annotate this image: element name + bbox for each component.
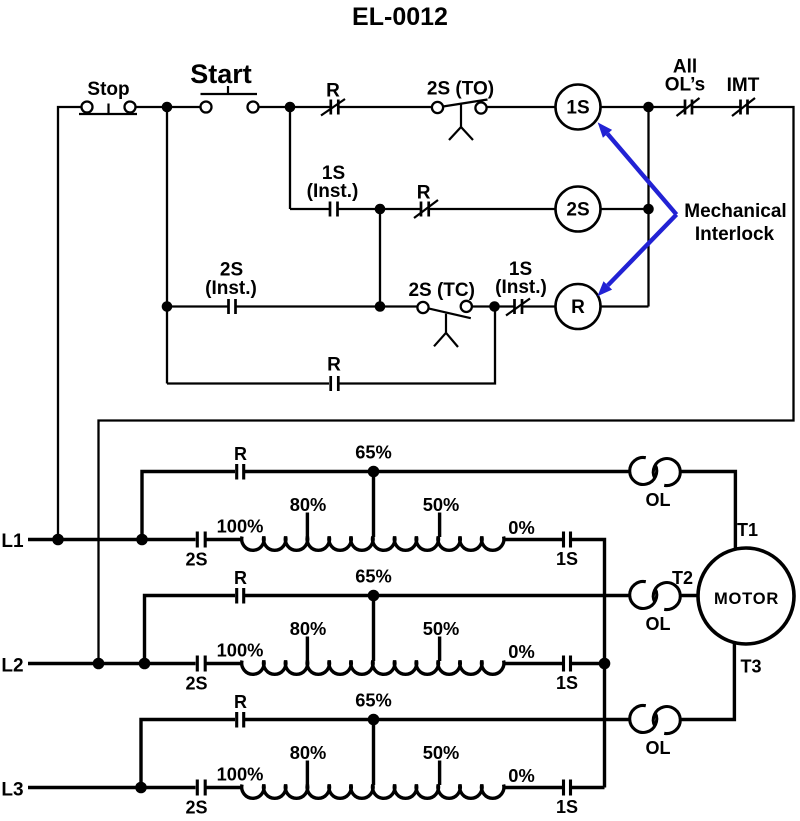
wire 2S to coil L2	[207, 662, 244, 665]
svg-text:50%: 50%	[423, 494, 460, 515]
wire coil 2S to node	[601, 208, 649, 210]
contact R power L3	[234, 692, 247, 728]
contact 2S power L2	[185, 656, 207, 694]
svg-text:2S: 2S	[185, 798, 207, 818]
coil 1S	[556, 85, 601, 130]
wire L3 bypass riser	[141, 720, 235, 788]
contact IMT (NC)	[727, 75, 760, 116]
node 65% L3	[368, 714, 380, 726]
wire row4 loop	[167, 382, 329, 384]
coil 2S	[556, 187, 601, 232]
svg-text:OL’s: OL’s	[665, 75, 705, 96]
svg-text:65%: 65%	[355, 442, 392, 463]
overload heater OL L1	[630, 457, 681, 510]
contact R power L2	[234, 568, 247, 604]
wire L1 bypass riser	[142, 472, 235, 540]
wire node to 2S(TC)	[380, 305, 418, 307]
wire OL L1 to T1	[680, 472, 735, 550]
svg-text:Start: Start	[190, 59, 252, 89]
svg-text:0%: 0%	[508, 641, 534, 662]
wire L2 row	[28, 662, 196, 665]
svg-text:EL-0012: EL-0012	[352, 3, 448, 31]
wire All OL's to IMT	[693, 106, 740, 108]
node star rail L2	[599, 658, 611, 670]
contact 2S (Inst.) NO row3	[205, 260, 257, 315]
svg-text:T2: T2	[672, 568, 693, 588]
contact 1S (Inst.) NC row3	[495, 259, 547, 316]
wire 1S L2 to star rail	[572, 662, 605, 665]
wire right rail	[99, 107, 794, 664]
wire coil 1S to node	[601, 106, 649, 108]
wire vertical coil bus	[647, 107, 649, 307]
svg-text:2S: 2S	[185, 674, 207, 694]
mechanical interlock arrow upper	[598, 122, 677, 214]
node row2-right	[643, 204, 654, 215]
node row3-mid	[375, 301, 386, 312]
svg-text:1S: 1S	[566, 98, 589, 119]
svg-text:R: R	[326, 81, 340, 102]
tap 65% L1	[355, 442, 392, 538]
svg-text:1S: 1S	[556, 549, 578, 569]
svg-text:2S: 2S	[185, 550, 207, 570]
contact 1S power L2	[556, 656, 578, 694]
contact 1S power L1	[556, 532, 578, 570]
wire node to 1S(Inst.) NC	[495, 305, 514, 307]
tap 80% L3	[290, 742, 327, 785]
wire 1S L1 to star rail	[572, 540, 605, 788]
svg-text:(Inst.): (Inst.)	[495, 277, 547, 298]
svg-text:2S: 2S	[566, 200, 589, 221]
wire left rail L1	[58, 107, 82, 540]
svg-text:100%: 100%	[217, 764, 264, 785]
wire vertical node-b down to row2	[289, 107, 291, 209]
tap 50% L1	[423, 494, 460, 537]
svg-text:OL: OL	[646, 490, 671, 510]
wire L1 row	[28, 538, 196, 541]
tap 65% L2	[355, 566, 392, 662]
svg-text:0%: 0%	[508, 765, 534, 786]
svg-text:65%: 65%	[355, 690, 392, 711]
svg-text:OL: OL	[646, 614, 671, 634]
overload heater OL L2	[630, 581, 681, 634]
wire vertical node-a down	[166, 107, 168, 384]
wire R to OL L1	[245, 470, 630, 473]
wire 2S(TC) to node	[472, 305, 494, 307]
wire row4 right and riser	[340, 307, 496, 384]
motor M	[698, 548, 794, 644]
wire R to OL L2	[245, 594, 630, 597]
tap 65% L3	[355, 690, 392, 786]
autotransformer winding L2	[242, 661, 504, 675]
contact 1S (Inst.) NO row2	[307, 163, 359, 217]
autotransformer winding L3	[242, 785, 504, 799]
wire node to contact R	[290, 106, 330, 108]
contact All OL's (NC)	[665, 57, 705, 117]
svg-text:2S (TC): 2S (TC)	[408, 280, 475, 301]
node L1-riser	[136, 534, 148, 546]
contact 2S power L1	[185, 532, 207, 570]
node row1-a	[162, 102, 173, 113]
wire 2S to coil L3	[207, 786, 244, 789]
contact R (NC) row2	[414, 183, 438, 219]
node row2	[375, 204, 386, 215]
wire L3 row	[28, 786, 196, 789]
contact R power L1	[234, 444, 247, 480]
node row1-c	[643, 102, 654, 113]
svg-text:80%: 80%	[290, 742, 327, 763]
node L1-rail	[52, 534, 64, 546]
node row3-right	[489, 301, 500, 312]
svg-text:R: R	[417, 183, 431, 204]
wire 1S(Inst.) to node row2	[339, 208, 381, 210]
node L2-rail	[93, 658, 105, 670]
contact 2S (TO) timed-opening	[427, 79, 494, 141]
tap 50% L3	[423, 742, 460, 785]
svg-text:80%: 80%	[290, 494, 327, 515]
contact 2S power L3	[185, 780, 207, 818]
svg-text:R: R	[327, 355, 341, 376]
coil R	[556, 284, 601, 329]
node 65% L1	[368, 466, 380, 478]
tap 80% L2	[290, 618, 327, 661]
svg-text:Mechanical: Mechanical	[684, 201, 786, 222]
node 65% L2	[368, 590, 380, 602]
wire row2 left	[290, 208, 329, 210]
svg-text:Stop: Stop	[87, 79, 129, 100]
node row1-b	[285, 102, 296, 113]
svg-text:R: R	[234, 568, 247, 588]
svg-text:L2: L2	[1, 656, 23, 677]
wire 2S(TO) to coil 1S	[487, 106, 556, 108]
wire L2 bypass riser	[145, 596, 236, 664]
wire row3 left	[167, 305, 228, 307]
svg-text:(Inst.): (Inst.)	[307, 181, 359, 202]
svg-text:MOTOR: MOTOR	[714, 590, 779, 608]
svg-text:100%: 100%	[217, 640, 264, 661]
svg-text:(Inst.): (Inst.)	[205, 278, 257, 299]
wire R row2 to coil 2S	[430, 208, 557, 210]
svg-text:1S: 1S	[556, 797, 578, 817]
wire 2S to coil L1	[207, 538, 244, 541]
wire OL L3 to T3	[680, 644, 734, 720]
wire node to contact R row2	[380, 208, 420, 210]
svg-text:100%: 100%	[217, 516, 264, 537]
pushbutton Start (NO)	[190, 59, 258, 113]
svg-text:0%: 0%	[508, 517, 534, 538]
wire coil to 1S L2	[503, 662, 562, 665]
wire coil to 1S L1	[503, 538, 562, 541]
label Mechanical Interlock	[684, 201, 786, 245]
mechanical interlock arrow lower	[597, 215, 676, 297]
wire 1S(Inst.) to coil R	[523, 305, 556, 307]
svg-text:T1: T1	[737, 520, 758, 540]
svg-text:IMT: IMT	[727, 75, 760, 96]
svg-text:1S: 1S	[556, 673, 578, 693]
svg-text:R: R	[234, 692, 247, 712]
wire node to Start	[167, 106, 201, 108]
svg-text:T3: T3	[740, 657, 761, 677]
wire Start to node	[259, 106, 291, 108]
node L2-riser	[139, 658, 151, 670]
contact R (NO) row4	[327, 355, 341, 392]
node row3 left	[162, 301, 173, 312]
svg-text:L3: L3	[1, 780, 23, 801]
overload heater OL L3	[630, 705, 681, 758]
wire R to OL L3	[245, 718, 630, 721]
svg-text:50%: 50%	[423, 742, 460, 763]
wire R to 2S(TO)	[339, 106, 432, 108]
svg-text:OL: OL	[646, 738, 671, 758]
node L3-riser	[135, 782, 147, 794]
svg-text:R: R	[571, 297, 585, 318]
wire 2S(Inst.) to node row3	[237, 305, 381, 307]
svg-text:50%: 50%	[423, 618, 460, 639]
svg-text:80%: 80%	[290, 618, 327, 639]
pushbutton Stop (NC)	[79, 79, 137, 114]
wire OL L2 to motor	[680, 594, 699, 597]
svg-text:Interlock: Interlock	[695, 224, 775, 245]
wire row1 Stop to node	[136, 106, 168, 108]
wire vertical row2 node down to row3	[379, 209, 381, 307]
svg-text:R: R	[234, 444, 247, 464]
wire coil to 1S L3	[503, 786, 562, 789]
svg-text:2S (TO): 2S (TO)	[427, 79, 494, 100]
contact 1S power L3	[556, 780, 578, 818]
tap 80% L1	[290, 494, 327, 537]
contact 2S (TC) timed-closing	[408, 280, 475, 347]
wire 1S L3 to star rail	[572, 786, 605, 789]
contact R (NC) row1	[321, 81, 345, 116]
wire coil R to bus	[601, 305, 649, 307]
autotransformer winding L1	[242, 537, 504, 551]
svg-text:65%: 65%	[355, 566, 392, 587]
svg-text:L1: L1	[1, 531, 24, 552]
wire node to All OL's	[649, 106, 685, 108]
tap 50% L2	[423, 618, 460, 661]
